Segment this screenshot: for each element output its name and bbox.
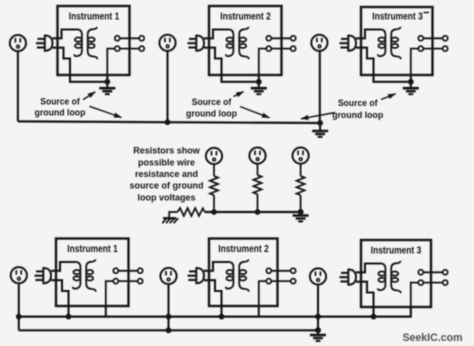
wire outlet J7 to bus A and bus B [18, 283, 20, 330]
wire plug P6 to transformer T6 [356, 264, 381, 310]
wire bus end to ground [319, 123, 321, 131]
wire under instrument 1 [70, 74, 107, 88]
ground instrument 2 [251, 88, 267, 94]
wire plug P1 to transformer T1 [53, 30, 78, 76]
outlet J4 [206, 148, 222, 164]
svg-text:source of ground: source of ground [130, 181, 204, 191]
svg-text:Source of: Source of [192, 97, 232, 108]
terminals instrument 2 [259, 36, 296, 76]
wire resistor R3 to mid bus [257, 194, 259, 212]
wire under instrument 3 [374, 74, 411, 88]
svg-text:Instrument 1: Instrument 1 [67, 244, 118, 255]
transformer T2 [226, 27, 249, 59]
ground top bus [312, 131, 328, 137]
resistor R4 [297, 176, 305, 195]
wire outlet J9 to ground [317, 285, 319, 335]
junction instrument 2 ground [256, 79, 262, 85]
ground instrument 1 [99, 88, 115, 94]
bottom bus B wire [19, 329, 318, 331]
terminals instrument 1 [107, 36, 144, 76]
terminals instrument 2 (bottom) [259, 268, 296, 308]
instrument 2 box (bottom) [209, 239, 278, 307]
junction outlet J8 bus A [166, 314, 172, 320]
wire under instrument 2 [222, 74, 259, 88]
junction outlet J8 bus B [166, 327, 172, 333]
outlet J6 [293, 148, 309, 164]
wire chassis ground to resistor R1 [169, 212, 177, 218]
junction instrument 1 ground [104, 79, 110, 85]
svg-text:Instrument 3: Instrument 3 [371, 246, 422, 257]
svg-text:Instrument 2: Instrument 2 [220, 12, 271, 23]
plug P2 [188, 36, 205, 51]
ground instrument 3 [403, 88, 419, 94]
wire outlet J5 to resistor R3 [257, 164, 259, 175]
bottom bus A wire [19, 307, 411, 317]
terminals instrument 1 (bottom) [106, 268, 143, 308]
instrument 1 box [58, 6, 130, 75]
svg-text:Resistors show: Resistors show [133, 146, 201, 156]
svg-text:possible wire: possible wire [138, 157, 195, 167]
junction instrument 1 plug bus A [66, 314, 72, 320]
svg-text:Instrument 1: Instrument 1 [69, 12, 120, 23]
instrument 3 box [361, 7, 433, 75]
wire mid bus to ground [300, 212, 302, 215]
chassis ground [162, 218, 178, 223]
wire instrument 1 plug side to bus A [67, 305, 69, 317]
plug P3 [340, 36, 357, 51]
wire outlet J3 to ground bus [319, 51, 321, 123]
wire outlet J6 to resistor R4 [300, 164, 302, 176]
plug P4 [35, 268, 52, 283]
junction instrument 3 ground [408, 79, 414, 85]
wire plug P3 to transformer T3 [356, 30, 381, 76]
wire instrument 1 terminal side to bus A [105, 305, 107, 317]
wire outlet J2 to ground bus [166, 51, 168, 122]
wire instrument 2 terminal side to bus A [258, 305, 260, 317]
instrument 3 box (bottom) [361, 240, 431, 307]
wire plug P2 to transformer T2 [204, 30, 229, 76]
transformer T4 [73, 259, 96, 291]
svg-text:Source of: Source of [338, 98, 378, 109]
instrument 1 box (bottom) [56, 239, 129, 307]
plug P5 [188, 268, 205, 283]
wire instrument 3 plug side to bus A [372, 307, 374, 317]
arrow label1 to ground instrument 1 [83, 92, 95, 100]
wire outlet J8 to bus B [167, 284, 169, 330]
ground mid bus [293, 216, 309, 222]
title dash artifact [424, 12, 430, 14]
outlet J5 [249, 148, 265, 164]
svg-text:Instrument 2: Instrument 2 [218, 244, 269, 255]
plug P6 [340, 270, 357, 285]
instrument 2 box [209, 6, 282, 75]
svg-text:Source of: Source of [40, 96, 80, 107]
wire instrument 2 plug side to bus A [220, 305, 222, 317]
plug P1 [36, 36, 53, 51]
transformer T1 [74, 27, 97, 59]
svg-text:Instrument 3: Instrument 3 [372, 12, 423, 23]
transformer T5 [226, 259, 249, 291]
transformer T3 [378, 27, 401, 59]
outlet J9 [310, 268, 326, 284]
wire outlet J1 to ground bus [17, 51, 19, 121]
junction R4 mid bus [298, 209, 304, 215]
wire plug P4 to transformer T4 [51, 262, 76, 308]
mid bus wire [205, 211, 301, 213]
outlet J3 [311, 35, 327, 51]
terminals instrument 3 [411, 36, 448, 76]
svg-text:resistance and: resistance and [135, 169, 198, 179]
wire plug P5 to transformer T5 [204, 262, 229, 308]
junction outlet J2 on bus [165, 119, 171, 125]
outlet J8 [160, 268, 176, 284]
junction outlet J7 bus A [16, 314, 22, 320]
wire outlet J4 to resistor R2 [213, 164, 215, 176]
outlet J2 [159, 35, 175, 51]
junction outlet J9 bus B [315, 327, 321, 333]
wire resistor R4 to mid bus [300, 195, 302, 212]
junction R2 mid bus [211, 209, 217, 215]
resistor R1 [178, 208, 205, 216]
ground bottom [310, 335, 326, 341]
svg-text:ground loop: ground loop [186, 109, 237, 120]
outlet J1 [10, 35, 26, 51]
top ground bus wire [18, 121, 320, 123]
transformer T6 [378, 261, 401, 293]
arrow label2 to bus [240, 107, 270, 118]
junction outlet J3 on bus [317, 120, 323, 126]
resistor R3 [254, 175, 262, 194]
arrow label3 to bus junction [301, 113, 335, 119]
arrow label2 to ground instrument 2 [234, 92, 244, 97]
svg-text:ground loop: ground loop [35, 108, 86, 119]
svg-text:ground loop: ground loop [332, 110, 383, 121]
arrow label3 to ground instrument 3 [381, 94, 396, 100]
outlet J7 [11, 267, 27, 283]
arrow label1 to bus [90, 106, 122, 117]
wire resistor R2 to mid bus [213, 195, 215, 212]
svg-text:SeekIC.com: SeekIC.com [402, 332, 462, 344]
resistor R2 [210, 176, 218, 195]
svg-text:loop voltages: loop voltages [137, 192, 195, 202]
junction outlet J9 bus A [315, 314, 321, 320]
junction instrument 3 plug bus A [371, 314, 377, 320]
junction R3 mid bus [255, 209, 261, 215]
junction instrument 2 plug bus A [219, 314, 225, 320]
terminals instrument 3 (bottom) [411, 270, 448, 310]
